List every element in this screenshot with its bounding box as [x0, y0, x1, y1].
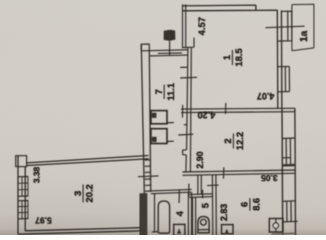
bathroom left wall: [152, 194, 158, 232]
bathtub: [158, 201, 169, 233]
door tick room2: [178, 125, 193, 136]
room 3 window 1: [18, 177, 29, 197]
bathroom right wall: [188, 192, 191, 235]
toilet room left wall: [193, 197, 196, 235]
room 1 left-top outer wall: [183, 4, 186, 48]
dark wall section: [140, 194, 147, 236]
kitchen window: [283, 201, 298, 222]
kitchen small square: [222, 225, 234, 234]
kitchen door tick: [207, 184, 219, 187]
svg-text:2: 2: [222, 138, 233, 143]
hall-kitchen wall: [183, 170, 295, 175]
divider wall rooms 1-2: [181, 108, 295, 112]
svg-text:5: 5: [200, 203, 211, 208]
room 3 pilaster: [16, 156, 27, 167]
balcony door line: [265, 26, 304, 28]
closet ticks: [167, 123, 174, 142]
label room 6: [240, 198, 262, 211]
label room 3: [72, 184, 95, 202]
room 3 top wall: [27, 156, 149, 166]
room 7 top step: [141, 44, 149, 51]
vent chimney blob: [164, 30, 175, 40]
room 3 door tick: [138, 175, 159, 178]
right outer wall lower inner line: [281, 109, 284, 236]
svg-text:3.38: 3.38: [32, 167, 42, 184]
svg-text:6: 6: [240, 202, 250, 207]
door tick room7-room1: [180, 67, 197, 78]
room 2 window sill band: [282, 164, 295, 167]
washbasin: [174, 224, 185, 235]
svg-text:4.57: 4.57: [196, 17, 207, 35]
label room 2: [222, 132, 245, 150]
toilet room top wall: [189, 194, 212, 198]
svg-text:4: 4: [174, 210, 185, 216]
balcony outline: [292, 4, 314, 51]
bathroom top wall: [151, 189, 192, 193]
vestibule stub wall: [198, 175, 201, 194]
room 7 top wall: [141, 50, 188, 56]
vent stack: [158, 40, 182, 56]
svg-text:4.07: 4.07: [257, 91, 275, 101]
window W2 room1: [278, 66, 290, 91]
svg-text:11.1: 11.1: [165, 83, 176, 101]
svg-text:12.2: 12.2: [234, 132, 245, 150]
wall connector node: [182, 38, 194, 48]
kitchen left wall: [212, 175, 216, 236]
room 3 bottom wall: [18, 228, 140, 235]
room 2 window: [282, 138, 295, 164]
svg-text:20.2: 20.2: [84, 184, 95, 202]
label room 1: [221, 48, 244, 66]
svg-text:3.05: 3.05: [261, 173, 278, 183]
room3-corridor wall hatch rungs: [145, 160, 152, 191]
svg-text:5.97: 5.97: [35, 216, 52, 226]
label room 7: [153, 83, 176, 101]
svg-text:3: 3: [72, 191, 83, 196]
svg-text:2.90: 2.90: [195, 151, 205, 168]
window W1 balcony block: [277, 11, 292, 41]
hall-kitchen wall tick: [223, 167, 225, 178]
svg-text:18.5: 18.5: [233, 48, 244, 66]
toilet fixture: [198, 217, 209, 233]
svg-text:2.83: 2.83: [219, 204, 229, 221]
bathroom door ticks: [179, 184, 189, 203]
room 3 left wall: [18, 156, 25, 235]
svg-text:8.6: 8.6: [251, 198, 261, 211]
svg-text:1: 1: [221, 55, 232, 60]
room 1 right wall outer: [280, 10, 283, 109]
room 3 window 2: [18, 201, 29, 219]
right outer wall lower outer line: [294, 108, 297, 235]
toilet door tick: [202, 190, 204, 199]
svg-text:4.20: 4.20: [197, 110, 215, 120]
room 1 right wall inner: [276, 10, 279, 109]
closet 1 mark: [152, 113, 157, 118]
closet 2: [151, 129, 167, 144]
closet 2 mark: [152, 137, 157, 142]
divider tick: [183, 103, 226, 118]
closet 1: [151, 111, 167, 124]
corridor left wall: [141, 44, 150, 193]
room 1 top wall: [182, 5, 277, 11]
kitchen sink: [269, 219, 283, 233]
svg-text:1a: 1a: [299, 30, 310, 42]
svg-text:7: 7: [153, 89, 164, 94]
room 1 / room 2 left wall: [183, 48, 192, 172]
